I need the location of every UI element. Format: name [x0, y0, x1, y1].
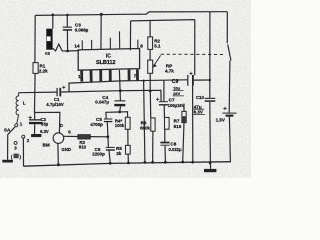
label pin 8	[140, 44, 143, 49]
ground (SA pole)	[2, 160, 13, 163]
label L	[23, 101, 26, 106]
wire: bus to bottom rail vertical	[144, 81, 145, 163]
label R7 value	[174, 119, 182, 129]
socket XS	[46, 29, 52, 50]
wire: switch to battery positive	[228, 61, 231, 113]
wire: C8 to rail	[164, 146, 166, 163]
potentiometer RP	[148, 60, 153, 73]
wire: SA pole to ground	[7, 135, 9, 160]
svg-text:910: 910	[79, 144, 87, 149]
svg-text:4.7μ/16V: 4.7μ/16V	[46, 102, 64, 107]
wire: C9 left plate down to rail	[192, 86, 194, 162]
wire: rail to switch upper contact	[226, 12, 228, 44]
svg-text:100k: 100k	[115, 123, 125, 128]
svg-text:IC: IC	[106, 54, 111, 60]
label C5 value	[90, 117, 103, 127]
resistor R6	[151, 118, 155, 131]
resistor R5	[126, 145, 131, 154]
capacitor C1	[57, 88, 62, 97]
electret microphone BM	[53, 133, 64, 144]
node: rail junction dots	[66, 50, 211, 165]
node: rail junction dot	[100, 13, 103, 16]
resistor R2	[148, 37, 153, 50]
label C1 value	[46, 97, 64, 107]
capacitor C10	[205, 98, 216, 102]
capacitor C2	[29, 119, 42, 124]
wire: C7 to R7	[163, 106, 165, 118]
label C7 value	[168, 98, 185, 109]
label RP value	[165, 63, 174, 73]
svg-text:14: 14	[74, 44, 80, 49]
ground (C2)	[31, 134, 41, 137]
svg-text:C7: C7	[169, 98, 175, 103]
svg-text:6.3V: 6.3V	[40, 129, 49, 134]
node: dot RP/wire	[149, 90, 152, 93]
svg-text:D: D	[60, 123, 63, 128]
svg-text:680k: 680k	[140, 125, 150, 130]
label R3 value	[79, 140, 87, 149]
wire: C4 bottom node	[119, 106, 122, 112]
wire: RP bottom column	[149, 73, 151, 91]
wire: R3 to C5/C6 junction	[90, 136, 107, 138]
wire: bus down to C7	[163, 80, 165, 101]
svg-text:2200p: 2200p	[92, 152, 105, 157]
wire: R7 to C8	[164, 129, 166, 142]
svg-text:SLB112: SLB112	[96, 60, 115, 66]
wire: R2 to RP	[149, 49, 151, 60]
label battery value	[216, 118, 225, 123]
capacitor C9	[187, 75, 194, 86]
label XS	[45, 51, 50, 56]
label R4 value	[115, 118, 125, 128]
potentiometer RP wiper arrow	[155, 55, 161, 64]
capacitor C2 stem	[34, 113, 36, 134]
label IC name	[96, 54, 115, 67]
capacitor C7	[159, 101, 168, 105]
wire: to R6	[149, 91, 151, 118]
wire: XS to IC pin 14 with kink	[53, 44, 80, 51]
label C8 value	[169, 141, 182, 152]
label pin 1	[78, 74, 81, 79]
resistor R3	[78, 135, 90, 139]
paper noise	[0, 0, 251, 178]
svg-text:BM: BM	[43, 143, 50, 148]
wire: R4 to R5	[127, 129, 129, 145]
resistor R8 (unlabeled)	[182, 111, 186, 122]
label R1 value	[39, 64, 48, 74]
switch SA contact 2	[22, 135, 25, 138]
svg-text:C3: C3	[75, 22, 81, 27]
ground (main, below bottom rail)	[209, 163, 211, 169]
node: dot C4 bottom	[118, 111, 121, 114]
node: dot pin5/wire	[119, 89, 122, 92]
svg-text:16V: 16V	[173, 91, 180, 96]
svg-text:GND: GND	[61, 147, 71, 152]
socket XS stem from rail	[52, 15, 54, 29]
label SA contacts	[4, 122, 30, 151]
wire: top supply rail	[35, 12, 227, 16]
wire: R5 to rail	[127, 154, 129, 163]
wire: main right vertical (rail to ground)	[209, 12, 212, 163]
wire: R1 down to mic D node	[34, 73, 37, 112]
label R2 value	[154, 39, 161, 49]
wire: left column rail to R1	[34, 15, 36, 62]
label switch position (none)	[11, 154, 22, 159]
wire: bus under IC	[69, 80, 187, 92]
wire: R6 to rail	[152, 131, 154, 162]
capacitor C5	[104, 119, 113, 123]
svg-text:C9: C9	[172, 79, 179, 85]
label C3 value	[75, 22, 89, 32]
IC U1 SLB112 body	[78, 49, 139, 71]
svg-text:100μ16V: 100μ16V	[168, 103, 185, 108]
label R6 value	[140, 121, 150, 131]
svg-text:0.047μ: 0.047μ	[95, 99, 109, 104]
svg-text:×S: ×S	[45, 51, 50, 56]
wire: C4 node left to C5	[106, 112, 120, 119]
wire: bottom ground rail	[24, 162, 232, 167]
svg-text:4.7k: 4.7k	[165, 68, 174, 73]
resistor R1	[33, 63, 38, 74]
resistor R8 (unlabeled) column	[183, 104, 184, 163]
svg-text:0.068μ: 0.068μ	[75, 28, 89, 33]
label pin 7	[134, 73, 137, 78]
switch SA contact 3	[14, 141, 17, 144]
svg-text:6.3V: 6.3V	[194, 109, 203, 114]
resistor R4	[125, 117, 130, 129]
wire: mic S to R3	[64, 135, 78, 137]
inductor L	[16, 93, 19, 124]
label C2 value	[40, 117, 49, 134]
wire: R2 tap from feedback line	[149, 21, 151, 37]
capacitor C6	[106, 147, 115, 151]
capacitor C3	[63, 27, 72, 31]
label C10 value	[194, 95, 205, 114]
label C6 value	[92, 147, 105, 156]
svg-text:1: 1	[78, 74, 81, 79]
svg-text:5.1: 5.1	[154, 44, 161, 49]
svg-text:C10: C10	[196, 95, 205, 100]
svg-text:33μ: 33μ	[41, 121, 49, 126]
wire: rail down to IC pin 12	[100, 14, 102, 49]
switch SA contact 1	[15, 124, 18, 127]
IC top pin stubs	[82, 31, 138, 50]
wire: SA contact 2 to bottom rail	[22, 138, 24, 166]
node: rail junction dot at C3	[66, 14, 69, 17]
label C9 value	[172, 79, 181, 96]
capacitor C4	[114, 100, 125, 106]
wire: C5 to C6 column	[107, 122, 110, 162]
wire: C1 right to C7 corner	[61, 90, 161, 101]
resistor R7	[165, 117, 170, 129]
wire: C9 right to vertical	[194, 79, 210, 81]
svg-text:4700p: 4700p	[90, 122, 103, 127]
svg-text:8: 8	[140, 44, 143, 49]
label BM terminals	[43, 123, 72, 152]
svg-text:L: L	[23, 101, 26, 106]
label pin 14	[74, 44, 80, 49]
capacitor C8	[160, 142, 169, 146]
capacitor C3 stem	[66, 15, 68, 51]
wire: battery negative to bottom rail	[229, 117, 230, 162]
switch SA blade	[8, 127, 15, 135]
svg-text:C8: C8	[170, 141, 176, 146]
wire: signal line through C1	[19, 91, 57, 94]
label C4 value	[95, 95, 109, 105]
wire: feedback line from IC pin 9 to C9 top	[130, 20, 194, 76]
label R5 value	[116, 146, 122, 156]
IC bottom pin stubs to bus	[82, 70, 138, 82]
node: dot mic gnd	[57, 163, 60, 166]
svg-text:1.5V: 1.5V	[216, 118, 225, 123]
wire: mic GND to rail	[57, 143, 59, 165]
node: dot S junction	[106, 135, 109, 138]
switch blade (power switch on RP)	[228, 44, 231, 60]
svg-text:0.022μ: 0.022μ	[169, 147, 182, 152]
svg-text:7: 7	[134, 73, 137, 78]
svg-text:2.2k: 2.2k	[39, 68, 48, 73]
wire: IC pin 5 column through to C4	[119, 70, 120, 100]
wire: mic D node horizontal to mic	[35, 112, 60, 133]
wire: dashed mechanical link RP to switch	[161, 53, 224, 55]
svg-text:510: 510	[174, 124, 182, 129]
wire: C4 node right to R4	[120, 112, 128, 118]
battery 1.5V	[222, 113, 236, 117]
svg-text:10μ: 10μ	[173, 86, 180, 91]
svg-text:3k: 3k	[116, 151, 122, 156]
svg-text:S: S	[68, 129, 71, 134]
